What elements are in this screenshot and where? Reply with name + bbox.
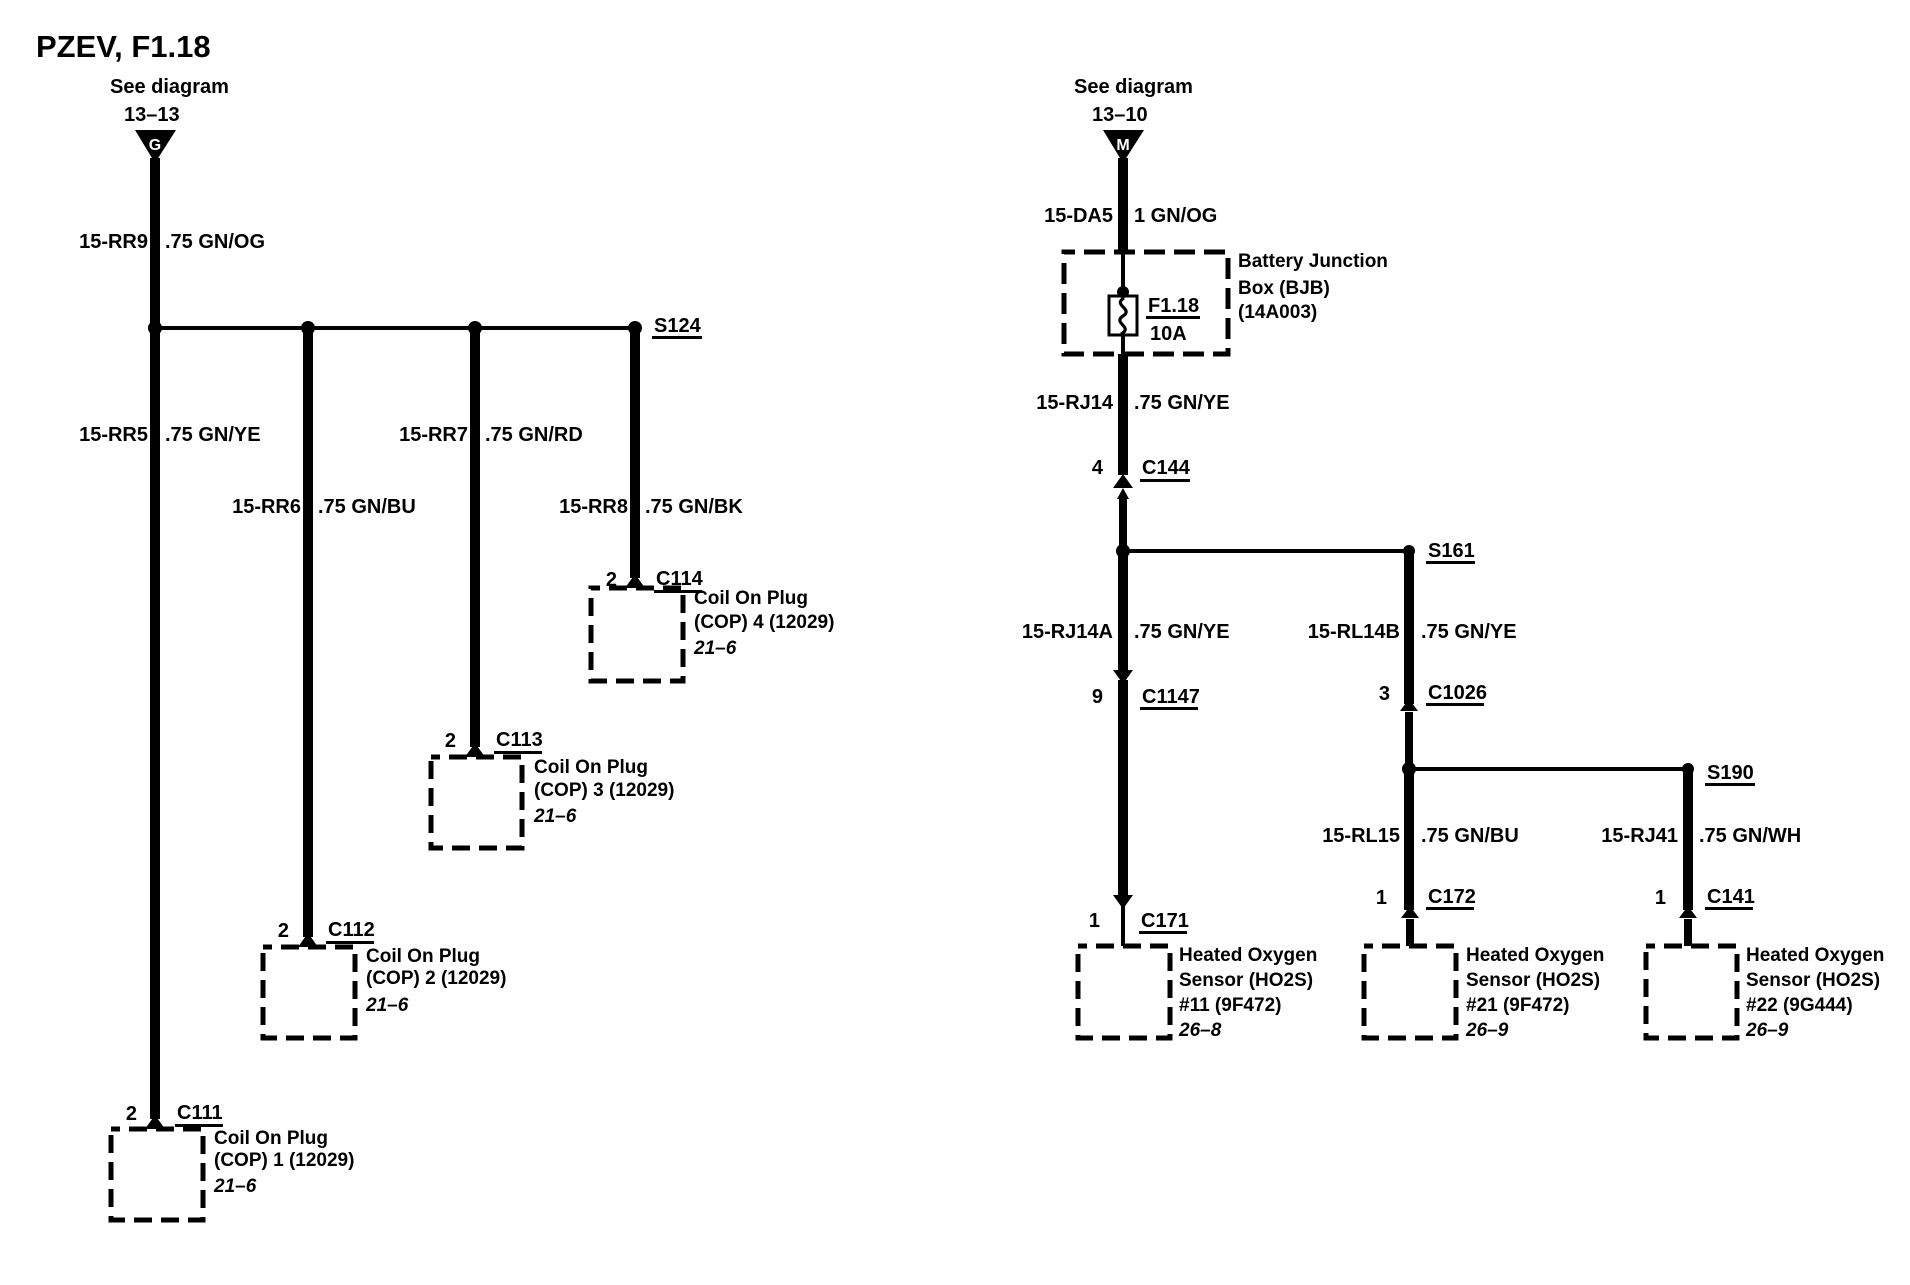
Battery Junction Box dashed enclosure: [1064, 252, 1228, 354]
svg-text:1: 1: [1089, 910, 1100, 932]
wire 15-RJ14 GN/YE: [1118, 354, 1128, 475]
component label Coil On Plug (COP) 3: [533, 757, 674, 827]
wire from C1147 to C171: [1118, 680, 1128, 895]
wire from C1026 to splice S190: [1405, 712, 1413, 769]
junction dot at 15-RR5: [148, 321, 162, 335]
component label Coil On Plug (COP) 4: [693, 588, 834, 659]
component label Coil On Plug (COP) 2: [365, 946, 506, 1016]
svg-text:G: G: [149, 137, 161, 154]
svg-text:15-RR9: 15-RR9: [79, 231, 148, 253]
svg-text:Coil On Plug: Coil On Plug: [694, 588, 808, 609]
wire 15-DA5 GN/OG: [1118, 158, 1128, 253]
svg-text:13–10: 13–10: [1092, 104, 1148, 126]
svg-text:PZEV, F1.18: PZEV, F1.18: [36, 29, 211, 64]
svg-text:Box (BJB): Box (BJB): [1238, 278, 1330, 299]
svg-text:1: 1: [1655, 887, 1666, 909]
svg-text:4: 4: [1092, 457, 1104, 479]
svg-text:C111: C111: [177, 1102, 223, 1124]
junction dot at 15-RR7: [468, 321, 482, 335]
wire 15-RR7 GN/RD: [470, 328, 480, 747]
svg-text:26–8: 26–8: [1178, 1020, 1222, 1041]
svg-text:C141: C141: [1707, 886, 1755, 908]
component label Coil On Plug (COP) 1: [213, 1128, 354, 1197]
wire label 15-RL14B .75 GN/YE: [1308, 621, 1517, 643]
fuse F1.18 element: [1109, 296, 1137, 335]
svg-text:C1026: C1026: [1428, 682, 1487, 704]
connector arrow C112: [298, 933, 318, 947]
svg-text:(14A003): (14A003): [1238, 302, 1317, 323]
splice S124 dot: [628, 321, 642, 335]
splice S190 wire: [1409, 767, 1688, 771]
connector C112 label: [326, 919, 375, 944]
svg-text:2: 2: [445, 730, 456, 752]
connector C172 box (HO2S 21): [1364, 946, 1456, 1038]
wire 15-RL14B GN/YE: [1404, 551, 1414, 704]
off-page connector G (to diagram 13-13): [135, 130, 176, 163]
connector C141 up arrow: [1679, 906, 1697, 918]
wire label 15-RR8 .75 GN/BK: [559, 496, 743, 518]
splice S161 dot: [1116, 544, 1130, 558]
svg-text:.75 GN/YE: .75 GN/YE: [1134, 392, 1230, 414]
svg-text:26–9: 26–9: [1465, 1020, 1509, 1041]
svg-text:21–6: 21–6: [693, 638, 737, 659]
svg-text:15-RR5: 15-RR5: [79, 424, 148, 446]
svg-text:26–9: 26–9: [1745, 1020, 1789, 1041]
connector arrow C111: [145, 1115, 165, 1129]
svg-text:9: 9: [1092, 686, 1103, 708]
connector arrow C114: [625, 574, 645, 588]
svg-text:15-RL14B: 15-RL14B: [1308, 621, 1400, 643]
svg-text:15-RJ14: 15-RJ14: [1036, 392, 1114, 414]
svg-text:S190: S190: [1707, 762, 1754, 784]
wire 15-RJ41 GN/WH: [1683, 769, 1693, 910]
in-line connector C1026 up arrow: [1400, 699, 1418, 711]
svg-text:15-DA5: 15-DA5: [1044, 205, 1113, 227]
svg-text:13–13: 13–13: [124, 104, 180, 126]
svg-text:C112: C112: [328, 919, 375, 941]
svg-text:2: 2: [278, 920, 289, 942]
svg-text:Coil On Plug: Coil On Plug: [214, 1128, 328, 1149]
svg-text:Sensor (HO2S): Sensor (HO2S): [1179, 970, 1313, 991]
svg-text:Battery Junction: Battery Junction: [1238, 251, 1388, 272]
connector C172 label: [1426, 886, 1476, 910]
connector C111 label: [175, 1102, 223, 1127]
wire out of fuse (thin): [1121, 335, 1125, 355]
splice S190 dot: [1402, 762, 1416, 776]
connector C171 label: [1139, 910, 1189, 934]
connector C114 box (Coil On Plug 4): [591, 588, 683, 681]
component label Battery Junction Box (BJB) (14A003): [1238, 251, 1388, 323]
connector C172 up arrow: [1401, 906, 1419, 918]
svg-text:.75 GN/YE: .75 GN/YE: [1421, 621, 1517, 643]
svg-text:21–6: 21–6: [533, 806, 577, 827]
splice S161 wire: [1123, 549, 1409, 553]
wire 15-RL15 GN/BU: [1404, 769, 1414, 910]
component label Heated Oxygen Sensor HO2S 11: [1178, 945, 1317, 1041]
connector C1147 label: [1140, 686, 1200, 710]
connector C113 box (Coil On Plug 3): [431, 757, 522, 848]
off-page connector M (to diagram 13-10): [1103, 130, 1144, 163]
svg-text:Heated Oxygen: Heated Oxygen: [1179, 945, 1317, 966]
svg-text:C172: C172: [1428, 886, 1476, 908]
connector C111 box (Coil On Plug 1): [111, 1129, 203, 1220]
svg-text:15-RL15: 15-RL15: [1322, 825, 1400, 847]
svg-text:21–6: 21–6: [365, 995, 409, 1016]
wire 15-RR9 GN/OG vertical: [150, 158, 160, 330]
splice S161 end dot: [1403, 545, 1415, 557]
svg-text:Coil On Plug: Coil On Plug: [366, 946, 480, 967]
svg-text:M: M: [1116, 137, 1129, 154]
svg-text:1 GN/OG: 1 GN/OG: [1134, 205, 1217, 227]
svg-text:.75 GN/WH: .75 GN/WH: [1699, 825, 1801, 847]
wire 15-RR5 GN/YE: [150, 328, 160, 1119]
connector arrow C113: [465, 743, 485, 757]
svg-text:Sensor (HO2S): Sensor (HO2S): [1746, 970, 1880, 991]
wire label 15-DA5 1 GN/OG: [1044, 205, 1217, 227]
component label Heated Oxygen Sensor HO2S 22: [1745, 945, 1884, 1041]
wire label 15-RR5 .75 GN/YE: [79, 424, 261, 446]
splice label S161: [1426, 540, 1475, 564]
svg-text:2: 2: [126, 1103, 137, 1125]
splice S124 bus wire: [155, 326, 635, 330]
svg-text:.75 GN/RD: .75 GN/RD: [485, 424, 583, 446]
svg-text:C171: C171: [1141, 910, 1189, 932]
svg-text:(COP) 1 (12029): (COP) 1 (12029): [214, 1150, 354, 1171]
wire label 15-RR6 .75 GN/BU: [232, 496, 416, 518]
svg-text:See diagram: See diagram: [110, 76, 229, 98]
svg-text:21–6: 21–6: [213, 1176, 257, 1197]
fuse label F1.18 / 10A: [1146, 295, 1200, 345]
svg-text:Heated Oxygen: Heated Oxygen: [1466, 945, 1604, 966]
wire label 15-RR9 .75 GN/OG: [79, 231, 265, 253]
splice label S124: [652, 315, 702, 339]
wire label 15-RJ14 .75 GN/YE: [1036, 392, 1229, 414]
connector C144 label: [1140, 457, 1191, 482]
wire 15-RR8 GN/BK: [630, 328, 640, 578]
svg-text:C113: C113: [496, 729, 543, 751]
svg-text:(COP) 2 (12029): (COP) 2 (12029): [366, 968, 506, 989]
svg-text:(COP) 3 (12029): (COP) 3 (12029): [534, 780, 674, 801]
wire from C144 to splice S161: [1119, 497, 1127, 551]
splice S190 end dot: [1682, 763, 1694, 775]
in-line connector C1147 down arrow: [1113, 670, 1133, 684]
wire label 15-RL15 .75 GN/BU: [1322, 825, 1519, 847]
see diagram 13-13 label: [110, 76, 229, 126]
connector C171 down arrow: [1113, 895, 1133, 909]
svg-text:15-RR7: 15-RR7: [399, 424, 468, 446]
svg-text:.75 GN/BK: .75 GN/BK: [645, 496, 743, 518]
connector C113 label: [494, 729, 543, 754]
svg-text:.75 GN/YE: .75 GN/YE: [1134, 621, 1230, 643]
see diagram 13-10 label: [1074, 76, 1193, 126]
wire 15-RJ14A GN/YE: [1118, 551, 1128, 670]
svg-text:Sensor (HO2S): Sensor (HO2S): [1466, 970, 1600, 991]
junction dot at fuse top: [1117, 286, 1129, 298]
svg-text:Coil On Plug: Coil On Plug: [534, 757, 648, 778]
wire stub into C141: [1684, 919, 1692, 946]
wire stub into C172: [1406, 919, 1414, 946]
wire label 15-RR7 .75 GN/RD: [399, 424, 583, 446]
svg-text:15-RJ14A: 15-RJ14A: [1022, 621, 1113, 643]
wire stub into C171: [1121, 905, 1125, 946]
svg-text:.75 GN/OG: .75 GN/OG: [165, 231, 265, 253]
svg-text:S124: S124: [654, 315, 702, 337]
in-line connector C144 arrows: [1113, 474, 1133, 499]
svg-text:3: 3: [1379, 683, 1390, 705]
wire 15-RR6 GN/BU: [303, 328, 313, 937]
svg-text:15-RR6: 15-RR6: [232, 496, 301, 518]
connector C171 box (HO2S 11): [1078, 946, 1170, 1038]
svg-text:C1147: C1147: [1142, 686, 1200, 708]
svg-text:15-RJ41: 15-RJ41: [1601, 825, 1678, 847]
component label Heated Oxygen Sensor HO2S 21: [1465, 945, 1604, 1041]
splice label S190: [1705, 762, 1755, 786]
svg-text:15-RR8: 15-RR8: [559, 496, 628, 518]
junction dot at 15-RR6: [301, 321, 315, 335]
svg-text:C144: C144: [1142, 457, 1191, 479]
svg-text:F1.18: F1.18: [1148, 295, 1199, 317]
svg-text:.75 GN/BU: .75 GN/BU: [1421, 825, 1519, 847]
svg-text:1: 1: [1376, 887, 1387, 909]
connector C141 box (HO2S 22): [1646, 946, 1737, 1038]
wire label 15-RJ41 .75 GN/WH: [1601, 825, 1801, 847]
svg-text:#11 (9F472): #11 (9F472): [1179, 995, 1281, 1016]
svg-text:Heated Oxygen: Heated Oxygen: [1746, 945, 1884, 966]
svg-text:#21 (9F472): #21 (9F472): [1466, 995, 1570, 1016]
svg-text:S161: S161: [1428, 540, 1475, 562]
connector C141 label: [1705, 886, 1755, 910]
svg-text:See diagram: See diagram: [1074, 76, 1193, 98]
connector C1026 label: [1426, 682, 1487, 706]
svg-text:.75 GN/YE: .75 GN/YE: [165, 424, 261, 446]
connector C114 label: [654, 568, 704, 593]
connector C112 box (Coil On Plug 2): [263, 947, 355, 1038]
wire into fuse (thin): [1121, 252, 1125, 296]
svg-text:#22 (9G444): #22 (9G444): [1746, 995, 1853, 1016]
wire label 15-RJ14A .75 GN/YE: [1022, 621, 1230, 643]
svg-text:(COP) 4 (12029): (COP) 4 (12029): [694, 612, 834, 633]
svg-text:10A: 10A: [1150, 323, 1187, 345]
svg-text:.75 GN/BU: .75 GN/BU: [318, 496, 416, 518]
